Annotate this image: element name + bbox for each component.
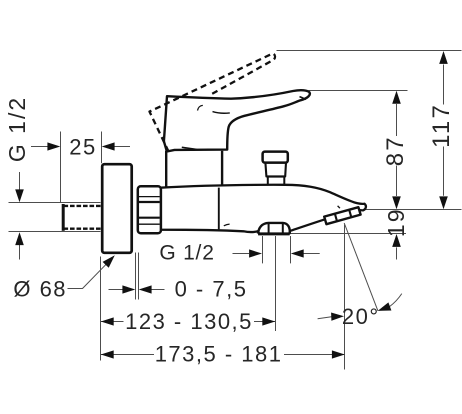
- diverter knob stem: [268, 177, 285, 188]
- pipe nipple G1/2 wall connection: [63, 204, 101, 231]
- wire: 20deg left arrow shaft: [318, 317, 332, 319]
- aerator divider right: [349, 210, 351, 217]
- connection nut: [138, 186, 161, 233]
- body seam line: [218, 188, 220, 230]
- outlet collar inner left line: [268, 224, 270, 234]
- svg-text:173,5 - 181: 173,5 - 181: [155, 342, 283, 367]
- wire: ext line 25-left: [60, 132, 62, 203]
- wire: 173,5-181 right shaft: [284, 354, 345, 356]
- svg-text:0 - 7,5: 0 - 7,5: [175, 277, 248, 302]
- wire: 87 shaft upper: [396, 104, 398, 136]
- pipe left cap: [62, 204, 65, 231]
- nut ridge lines: [139, 197, 160, 225]
- wire: lever tip reference line y=90 (87 top): [309, 90, 408, 92]
- outlet collar inner right line: [282, 224, 284, 234]
- wire: aerator bottom reference line y=234 (19 bottom): [290, 233, 406, 235]
- arrow 117 top (points up): [439, 51, 448, 64]
- wire: shaft G1/2 bottom left-arrow: [303, 253, 319, 255]
- aerator assembly (slanted outlet block): [324, 207, 360, 224]
- wire: 117 shaft upper: [443, 65, 445, 105]
- escutcheon Ø68: [102, 164, 132, 253]
- handle inner arc 2: [213, 112, 230, 114]
- aerator divider left: [335, 214, 337, 221]
- arrow 0-7,5 right (points left): [139, 285, 152, 293]
- arrow Ø68 leader (points up-right): [103, 255, 115, 267]
- arrow 25 left (points right): [47, 142, 60, 150]
- wire: 123-130,5 left stub: [101, 321, 124, 323]
- wire: 19 lower shaft: [396, 247, 398, 259]
- wire: shaft 0-7,5 left: [109, 289, 124, 291]
- pipe thread root top (dashed): [64, 205, 102, 207]
- svg-text:25: 25: [69, 135, 96, 160]
- arrow 20deg right (points left-down at slant line): [378, 302, 392, 311]
- wire: 173,5-181 left shaft: [101, 354, 155, 356]
- lever handle (solid position): [164, 90, 310, 151]
- arrow G1/2-left lower (points up): [15, 232, 24, 245]
- wire: shaft G1/2 bottom right-arrow: [233, 253, 250, 255]
- wire: 20deg right arc tail: [390, 294, 402, 307]
- diverter knob middle: [265, 163, 286, 177]
- diverter knob cap: [263, 152, 288, 163]
- wire: ext line 0-7,5 right: [138, 253, 140, 300]
- body detail tick: [224, 224, 230, 226]
- arrow 173,5-181 right (points right): [332, 350, 345, 358]
- arrow 0-7,5 left (points right): [122, 285, 135, 293]
- wire: outlet centerline extension: [275, 236, 277, 331]
- handle tip inner line: [300, 97, 307, 100]
- lever handle raised (dashed outline): [150, 53, 276, 151]
- arrow 19 bottom (points up onto y=234): [392, 234, 401, 247]
- wire: leader line of Ø68: [68, 264, 107, 288]
- wire: ext line 25-right (wall plane): [101, 132, 103, 164]
- arrow 25 right (points left): [102, 142, 115, 150]
- svg-text:19: 19: [383, 208, 409, 238]
- svg-text:G 1/2: G 1/2: [159, 242, 214, 265]
- svg-text:117: 117: [428, 103, 455, 148]
- wire: ext line spout-outlet vertical (20deg ref): [344, 225, 346, 370]
- neck / cartridge housing: [166, 151, 222, 188]
- arrow 173,5-181 left (points left): [101, 350, 114, 358]
- svg-text:G 1/2: G 1/2: [4, 96, 30, 162]
- wire: spout tip reference line y=209 (87/117 bottom, 19 top): [366, 209, 462, 211]
- wire: 117 shaft lower: [443, 147, 445, 196]
- arrow 87 top (points up): [392, 91, 401, 104]
- arrow 123-130,5 left (points left): [101, 317, 114, 325]
- wire: ext line left of bottom dims (wall plane): [100, 257, 102, 361]
- aerator housing: [324, 207, 360, 224]
- small tick above aerator: [338, 206, 340, 208]
- wire: 20deg slanted line: [344, 223, 378, 311]
- svg-text:Ø 68: Ø 68: [13, 276, 67, 301]
- arrow G1/2-bottom left (points right): [249, 249, 262, 257]
- wire: ext line outlet left edge: [262, 236, 264, 263]
- wire: top reference line y=51 (117 top, from dashed lever tip): [277, 50, 462, 52]
- handle inner arc 1: [198, 105, 203, 110]
- wire: pipe thread crest top line: [9, 202, 101, 204]
- arrow G1/2-bottom right (points left): [291, 249, 304, 257]
- handle wedge crease: [182, 147, 197, 149]
- outlet collar base bar: [258, 233, 290, 236]
- svg-text:123 - 130,5: 123 - 130,5: [125, 309, 253, 334]
- arrow 20deg left (points right): [331, 313, 344, 321]
- arrow 87/19 shared (points down onto y=209): [392, 196, 401, 209]
- faucet body with spout: [160, 185, 366, 234]
- wire: pipe thread crest bottom line: [9, 231, 101, 233]
- arrow G1/2-left upper (points down): [15, 189, 24, 202]
- arrow 117 bottom (points down): [439, 196, 448, 209]
- wire: shaft of 25 left arrow: [31, 146, 48, 148]
- svg-text:87: 87: [382, 135, 409, 166]
- pipe thread root bottom (dashed): [64, 227, 102, 229]
- arrow 123-130,5 right (points right): [262, 317, 275, 325]
- wire: 123-130,5 right stub: [254, 321, 276, 323]
- wire: G1/2 left lower shaft: [19, 245, 21, 260]
- wire: ext line 0-7,5 left: [135, 253, 137, 300]
- wire: G1/2 left upper shaft: [19, 172, 21, 190]
- wire: shaft of 25 right arrow: [114, 146, 130, 148]
- svg-text:20°: 20°: [342, 304, 380, 329]
- wire: shaft 0-7,5 right: [151, 289, 164, 291]
- wire: 87 shaft lower: [396, 166, 398, 197]
- shower outlet collar (dome): [258, 223, 290, 234]
- wire: ext line outlet right edge: [290, 236, 292, 263]
